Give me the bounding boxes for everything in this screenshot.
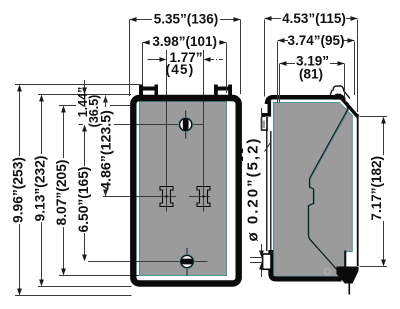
dim 8.07"(205) (61, 106, 66, 113)
mounting tab top-left (139, 85, 158, 96)
svg-text:ø 0.20”(5,2): ø 0.20”(5,2) (245, 137, 262, 242)
extension line bottom hole center y=261.5 (88, 261, 208, 263)
side view top edge (267, 97, 341, 104)
wall-mount bracket top (262, 117, 267, 131)
dim 9.96"(253) (17, 85, 22, 92)
bottom foot slot line (344, 251, 346, 267)
svg-text:(45): (45) (166, 62, 195, 77)
dim 3.19"(81) (279, 64, 281, 103)
dim 9.13"(232) (39, 95, 44, 102)
dim 6.50"(165) (82, 255, 87, 262)
dim 4.53"(115) (264, 20, 266, 97)
svg-text:3.98”(101): 3.98”(101) (152, 34, 217, 49)
ext line body top y=94.4 (38, 94, 131, 96)
side view right edge (357, 114, 359, 266)
side view chamfer top-right (340, 96, 358, 117)
svg-text:(81): (81) (299, 66, 323, 81)
dim 1.77"(45) (148, 59, 161, 61)
svg-text:6.50”(165): 6.50”(165) (76, 167, 91, 233)
keyhole slot left (160, 187, 173, 207)
foot screw hole mark (325, 269, 331, 275)
svg-text:4.53”(115): 4.53”(115) (282, 11, 346, 26)
svg-text:9.96”(253): 9.96”(253) (11, 157, 26, 223)
bracket ear hole lines (250, 257, 264, 259)
wall break tick (265, 143, 271, 152)
mounting tab top-right (214, 85, 232, 96)
ext line 7.17 bottom y=266 (360, 266, 388, 268)
dim 7.17"(182) (381, 117, 386, 124)
bottom mounting hole (180, 248, 194, 276)
svg-text:7.17”(182): 7.17”(182) (369, 156, 384, 221)
dim 4.86"(123.5) (103, 96, 108, 103)
ext line 7.17 top y=116.2 (360, 116, 388, 118)
ext line tabs top y=84.1 (15, 84, 140, 86)
ext line 9.96 bottom y=295.6 (15, 295, 132, 297)
top-right latch hook (330, 86, 350, 99)
top mounting hole (179, 111, 193, 139)
svg-text:8.07”(205): 8.07”(205) (54, 160, 69, 226)
svg-text:9.13”(232): 9.13”(232) (33, 156, 48, 222)
slot centerline right / 1.77 extension right (203, 50, 205, 212)
side view bottom-left corner and bottom edge (271, 250, 342, 279)
dim 3.98"(101) (142, 43, 144, 85)
dim 5.35"(136) (129, 20, 131, 96)
svg-text:5.35”(136): 5.35”(136) (154, 12, 219, 27)
keyhole slot right (197, 187, 210, 207)
side view left edge upper (263, 100, 269, 117)
extension line slots center y=196.5 (103, 196, 176, 198)
dim 1.44"(36.5) (82, 88, 87, 95)
side view back wall double line (266, 131, 268, 251)
extension line top hole center y=124.5 (79, 124, 84, 126)
slot centerline left / 1.77 extension left (166, 50, 168, 212)
ext line 9.13 bottom y=286.3 (38, 286, 132, 288)
bottom mounting foot (337, 267, 359, 284)
svg-text:4.86”(123.5): 4.86”(123.5) (98, 110, 114, 190)
enclosure front view door panel (140, 102, 227, 276)
svg-text:3.74”(95): 3.74”(95) (287, 33, 344, 48)
bottom bracket ear (263, 254, 271, 269)
side view gray interior (274, 103, 353, 277)
hinge marks right edge (241, 149, 243, 154)
dim 0.20"(5,2) bracket hole (261, 108, 263, 131)
side view inner profile line (309, 103, 348, 275)
ext line 8.07 top y=105.5 (59, 105, 76, 107)
enclosure front view body outline (133, 98, 238, 284)
extension line inner bottom y=275.2 (59, 275, 139, 277)
dim 3.74"(95) (277, 42, 279, 103)
